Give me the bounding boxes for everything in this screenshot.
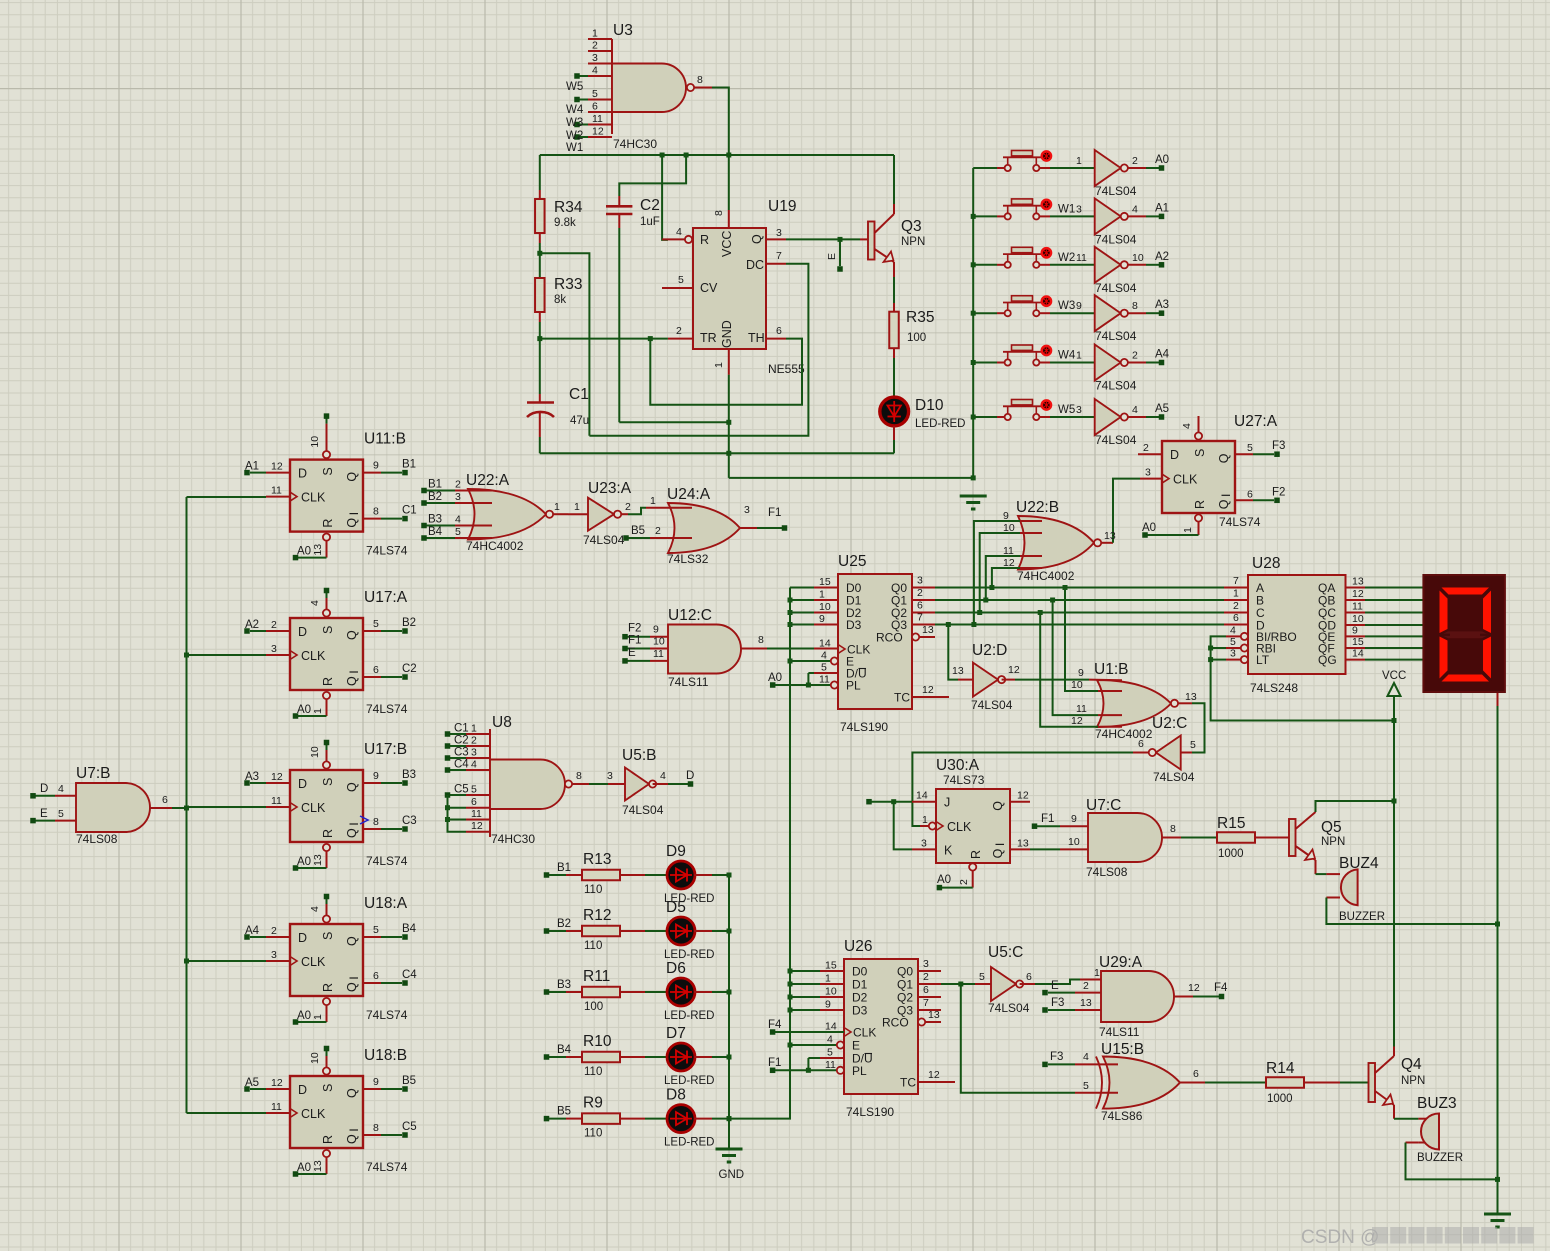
svg-text:U18:B: U18:B [364, 1047, 407, 1064]
svg-text:GND: GND [720, 320, 734, 348]
svg-text:Q: Q [345, 472, 359, 482]
svg-text:11: 11 [1076, 703, 1087, 715]
svg-text:R: R [700, 233, 709, 247]
wire U3 output to rail [712, 88, 729, 156]
node R34/R33 [537, 251, 589, 436]
svg-text:12: 12 [271, 771, 283, 783]
svg-text:S: S [321, 1084, 335, 1092]
svg-text:11: 11 [1076, 252, 1087, 264]
svg-text:U27:A: U27:A [1234, 413, 1278, 430]
svg-text:5: 5 [1083, 1080, 1089, 1092]
svg-text:R: R [321, 983, 335, 992]
svg-text:5: 5 [592, 88, 598, 100]
svg-text:F4: F4 [768, 1019, 782, 1031]
svg-text:5: 5 [821, 662, 827, 674]
svg-text:NPN: NPN [1401, 1075, 1425, 1087]
svg-text:1: 1 [1076, 350, 1082, 362]
svg-text:VCC: VCC [1382, 670, 1406, 682]
svg-text:U24:A: U24:A [667, 486, 711, 503]
svg-text:B4: B4 [557, 1044, 572, 1056]
ground LED bus [716, 1149, 745, 1181]
svg-text:1: 1 [713, 362, 725, 368]
svg-text:13: 13 [952, 665, 964, 677]
svg-text:W5: W5 [1058, 404, 1075, 416]
svg-text:74LS11: 74LS11 [1099, 1025, 1140, 1039]
svg-text:D8: D8 [666, 1087, 686, 1104]
wire GND net bottom [540, 452, 894, 454]
svg-text:5: 5 [373, 618, 379, 630]
svg-text:E: E [40, 808, 48, 820]
svg-text:D: D [686, 770, 694, 782]
svg-text:Q: Q [750, 234, 764, 244]
svg-text:C1: C1 [454, 723, 469, 735]
svg-text:6: 6 [1138, 738, 1144, 750]
svg-text:CLK: CLK [301, 491, 326, 505]
svg-text:4: 4 [1230, 624, 1236, 636]
svg-text:2: 2 [455, 479, 461, 491]
gate U22:B 74HC4002 NOR [1003, 479, 1140, 583]
svg-text:Q: Q [991, 848, 1005, 858]
svg-text:RCO: RCO [882, 1016, 909, 1030]
svg-text:U26: U26 [844, 938, 872, 955]
watermark [1301, 1227, 1534, 1248]
svg-text:D: D [298, 777, 307, 791]
svg-text:74LS74: 74LS74 [366, 702, 408, 716]
svg-text:13: 13 [1185, 691, 1197, 703]
svg-text:CLK: CLK [301, 955, 326, 969]
svg-text:8: 8 [373, 506, 379, 518]
svg-text:74LS04: 74LS04 [988, 1001, 1030, 1015]
svg-text:Q: Q [1217, 499, 1231, 509]
svg-text:14: 14 [916, 790, 928, 802]
wire bus Q1/B [935, 588, 1248, 603]
IC U19 NE555 timer [662, 155, 805, 376]
svg-text:QG: QG [1318, 653, 1337, 667]
resistor R34 9.8k [535, 155, 583, 253]
svg-text:5: 5 [678, 274, 684, 286]
svg-text:9: 9 [1078, 667, 1084, 679]
svg-text:C1: C1 [569, 386, 589, 403]
svg-text:W1: W1 [566, 142, 583, 154]
gate U2:C 74LS04 inverter [1133, 691, 1205, 784]
svg-text:4: 4 [592, 65, 598, 77]
svg-text:B2: B2 [557, 918, 571, 930]
svg-text:3: 3 [1230, 648, 1236, 660]
svg-text:NPN: NPN [1321, 836, 1345, 848]
svg-text:R: R [969, 850, 983, 859]
ground under buttons [960, 496, 987, 509]
svg-text:CLK: CLK [1173, 473, 1198, 487]
svg-text:R13: R13 [583, 851, 611, 868]
flip-flop U11:B [244, 413, 416, 560]
svg-text:13: 13 [312, 544, 324, 556]
svg-text:2: 2 [655, 525, 661, 537]
svg-text:W3: W3 [566, 117, 583, 129]
svg-text:9: 9 [653, 624, 659, 636]
svg-text:R: R [321, 1135, 335, 1144]
svg-text:4: 4 [827, 1034, 833, 1046]
wire CLK to U18:B [187, 1112, 267, 1114]
svg-text:4: 4 [676, 226, 682, 238]
svg-text:6: 6 [1026, 971, 1032, 983]
gate U15:B 74LS86 XOR [961, 984, 1266, 1123]
svg-text:13: 13 [312, 854, 324, 866]
svg-text:Q: Q [345, 676, 359, 686]
svg-text:C1: C1 [402, 505, 417, 517]
svg-text:A0: A0 [297, 546, 311, 558]
resistor R12 110 and LED D5 [544, 899, 729, 961]
svg-text:1: 1 [312, 708, 324, 714]
svg-text:5: 5 [58, 808, 64, 820]
wire U22:B pin11 [986, 556, 1042, 600]
svg-text:TR: TR [700, 331, 717, 345]
resistor R9 110 and LED D8 [544, 1087, 729, 1149]
svg-text:LED-RED: LED-RED [664, 1137, 714, 1149]
svg-text:S: S [1193, 449, 1207, 457]
svg-text:15: 15 [825, 960, 837, 972]
svg-text:6: 6 [917, 600, 923, 612]
gate U12:C 74LS11 AND [622, 607, 838, 689]
svg-text:A5: A5 [1155, 403, 1169, 415]
svg-text:U2:D: U2:D [972, 642, 1007, 659]
svg-text:Q4: Q4 [1401, 1056, 1422, 1073]
svg-text:74LS08: 74LS08 [1086, 865, 1128, 879]
svg-text:2: 2 [271, 925, 277, 937]
svg-text:100: 100 [584, 1001, 603, 1013]
svg-text:2: 2 [917, 587, 923, 599]
svg-text:4: 4 [1083, 1051, 1089, 1063]
svg-text:TC: TC [894, 691, 910, 705]
svg-text:DC: DC [746, 258, 764, 272]
svg-text:D9: D9 [666, 843, 686, 860]
svg-text:8: 8 [373, 1122, 379, 1134]
svg-text:12: 12 [1071, 715, 1083, 727]
resistor R11 100 and LED D6 [544, 960, 729, 1022]
svg-text:W2: W2 [1058, 252, 1075, 264]
svg-text:W5: W5 [566, 81, 583, 93]
resistor R13 110 and LED D9 [544, 843, 729, 905]
svg-text:B3: B3 [402, 769, 416, 781]
svg-text:74LS04: 74LS04 [1095, 329, 1137, 343]
svg-text:110: 110 [584, 884, 602, 896]
svg-text:7: 7 [776, 250, 782, 262]
flip-flop U17:B [244, 740, 416, 871]
wire U28 BI/RBI/LT [1208, 636, 1396, 723]
svg-text:10: 10 [1068, 836, 1080, 848]
VCC power symbol and rail [1382, 670, 1406, 1047]
svg-text:74LS04: 74LS04 [1153, 770, 1195, 784]
svg-text:5: 5 [979, 971, 985, 983]
svg-text:BUZ4: BUZ4 [1339, 855, 1379, 872]
svg-text:74LS73: 74LS73 [943, 773, 985, 787]
wire 7seg common [1495, 693, 1500, 1214]
capacitor C2 1uF [606, 155, 686, 422]
svg-text:C4: C4 [454, 759, 469, 771]
svg-text:1: 1 [825, 973, 831, 985]
svg-text:6: 6 [373, 970, 379, 982]
svg-text:Q: Q [345, 518, 359, 528]
svg-text:Q: Q [345, 1134, 359, 1144]
IC U28 74LS248 BCD to 7-seg decoder [1226, 555, 1424, 695]
svg-text:4: 4 [1132, 404, 1138, 416]
wire U25 D2 [790, 612, 814, 614]
svg-text:W3: W3 [1058, 300, 1075, 312]
wire 555 TH to TR [650, 339, 802, 405]
svg-text:74LS11: 74LS11 [668, 675, 709, 689]
button SW1 with inverter 74LS04 and net A0 [973, 150, 1169, 198]
svg-text:D: D [298, 931, 307, 945]
svg-text:1: 1 [471, 723, 477, 735]
svg-text:NE555: NE555 [768, 362, 805, 376]
svg-text:U5:C: U5:C [988, 944, 1023, 961]
svg-text:A2: A2 [245, 619, 259, 631]
button SW5 with inverter 74LS04 and net A4 [973, 345, 1169, 393]
svg-text:R34: R34 [554, 199, 583, 216]
svg-text:6: 6 [923, 984, 929, 996]
svg-text:CLK: CLK [301, 801, 326, 815]
svg-text:BUZZER: BUZZER [1339, 911, 1385, 923]
wire 555 Q to Q3 base [786, 237, 868, 242]
svg-text:8k: 8k [554, 294, 566, 306]
svg-text:3: 3 [1076, 404, 1082, 416]
gate U2:D 74LS04 inverter [948, 625, 1020, 713]
svg-text:1000: 1000 [1267, 1093, 1293, 1105]
svg-text:13: 13 [1352, 576, 1364, 588]
svg-text:A2: A2 [1155, 251, 1169, 263]
svg-text:2: 2 [1233, 600, 1239, 612]
svg-text:3: 3 [271, 949, 277, 961]
svg-text:PL: PL [852, 1064, 867, 1078]
wire bus Q0/A [935, 575, 1248, 590]
svg-text:F1: F1 [768, 1057, 781, 1069]
wire button feed column [971, 168, 976, 478]
svg-text:12: 12 [1008, 664, 1020, 676]
ground bottom right [1484, 1214, 1511, 1227]
wire VCC rail [540, 153, 894, 158]
svg-text:U29:A: U29:A [1099, 954, 1143, 971]
svg-text:BUZZER: BUZZER [1417, 1152, 1463, 1164]
svg-text:C2: C2 [640, 197, 660, 214]
svg-text:B1: B1 [557, 862, 571, 874]
svg-text:6: 6 [162, 794, 168, 806]
IC U26 74LS190 counter [820, 938, 955, 1119]
svg-text:F1: F1 [768, 507, 781, 519]
svg-text:B3: B3 [428, 514, 442, 526]
svg-text:U18:A: U18:A [364, 895, 408, 912]
svg-text:LT: LT [1256, 653, 1270, 667]
svg-text:TC: TC [900, 1076, 916, 1090]
svg-text:E: E [826, 253, 838, 260]
svg-text:D6: D6 [666, 960, 686, 977]
wire U22:B pin12 [992, 568, 1042, 588]
svg-text:J: J [944, 796, 950, 810]
svg-text:PL: PL [846, 679, 861, 693]
svg-text:47u: 47u [570, 415, 589, 427]
svg-text:F2: F2 [1272, 486, 1285, 498]
svg-text:R: R [321, 829, 335, 838]
svg-text:10: 10 [653, 636, 665, 648]
svg-text:1: 1 [592, 28, 598, 40]
svg-text:10: 10 [1132, 252, 1144, 264]
svg-text:10: 10 [819, 601, 831, 613]
wire U26 E [788, 1043, 837, 1048]
svg-text:1: 1 [922, 814, 928, 826]
svg-text:Q: Q [345, 828, 359, 838]
svg-text:10: 10 [1352, 613, 1364, 625]
svg-text:A0: A0 [768, 672, 782, 684]
svg-text:7: 7 [923, 997, 929, 1009]
svg-text:1uF: 1uF [640, 216, 660, 228]
svg-text:CLK: CLK [301, 1107, 326, 1121]
svg-text:11: 11 [1352, 601, 1363, 613]
svg-text:Q: Q [345, 1088, 359, 1098]
svg-text:S: S [321, 932, 335, 940]
svg-text:3: 3 [592, 52, 598, 64]
gate U22:A 74HC4002 NOR [421, 472, 568, 553]
capacitor C1 47u [527, 336, 589, 453]
wire U25 D0 [790, 587, 814, 589]
svg-text:RCO: RCO [876, 631, 903, 645]
wire C2 bottom to GND net [619, 420, 731, 425]
svg-text:CLK: CLK [301, 649, 326, 663]
svg-text:10: 10 [309, 436, 321, 448]
svg-text:2: 2 [271, 619, 277, 631]
svg-text:TH: TH [748, 331, 765, 345]
svg-text:W4: W4 [566, 104, 584, 116]
svg-text:3: 3 [923, 958, 929, 970]
svg-text:D2: D2 [852, 991, 868, 1005]
wire 555 TR [540, 336, 668, 341]
svg-text:11: 11 [271, 485, 282, 497]
svg-text:9: 9 [373, 460, 379, 472]
7-segment display showing 0 [1423, 575, 1505, 692]
button SW4 with inverter 74LS04 and net A3 [973, 295, 1169, 343]
wire U22:B pin9 [974, 521, 1042, 625]
svg-text:14: 14 [819, 638, 831, 650]
transistor Q5 NPN [1289, 801, 1394, 874]
svg-text:1: 1 [819, 589, 825, 601]
svg-text:12: 12 [922, 684, 934, 696]
svg-text:R12: R12 [583, 907, 611, 924]
svg-text:15: 15 [819, 576, 831, 588]
svg-text:U3: U3 [613, 22, 633, 39]
svg-text:R15: R15 [1217, 815, 1245, 832]
svg-text:10: 10 [309, 746, 321, 758]
wire CLK to U11:B [187, 496, 267, 498]
svg-text:E: E [1051, 980, 1059, 992]
resistor R35 100 [889, 277, 934, 396]
flip-flop U17:A [244, 588, 416, 719]
IC U27:A 74LS74 flip-flop [1138, 413, 1285, 538]
svg-text:74HC4002: 74HC4002 [466, 539, 524, 553]
svg-text:74HC30: 74HC30 [491, 832, 535, 846]
svg-text:A3: A3 [1155, 299, 1169, 311]
wire U26 PL F1 [768, 1057, 836, 1073]
svg-text:13: 13 [928, 1009, 940, 1021]
resistor R14 1000 [1266, 1060, 1369, 1105]
svg-text:74LS74: 74LS74 [1219, 515, 1261, 529]
wire U26 D pins [788, 969, 821, 1013]
svg-text:B2: B2 [428, 491, 442, 503]
svg-text:R: R [321, 677, 335, 686]
svg-text:1: 1 [1182, 527, 1194, 533]
svg-text:B2: B2 [402, 617, 416, 629]
svg-text:W1: W1 [1058, 203, 1075, 215]
svg-text:6: 6 [471, 796, 477, 808]
gate U1:B 74HC4002 NOR [1015, 588, 1178, 742]
buzzer BUZ4 [1326, 855, 1497, 924]
gate U24:A 74LS32 OR [623, 486, 787, 566]
svg-text:Q: Q [991, 801, 1005, 811]
svg-text:C4: C4 [402, 969, 417, 981]
svg-text:74HC4002: 74HC4002 [1017, 569, 1075, 583]
IC U3 74HC30 8-input NAND gate [566, 22, 712, 154]
flip-flop U18:B [244, 1046, 416, 1177]
svg-text:Q: Q [345, 982, 359, 992]
svg-text:8: 8 [576, 770, 582, 782]
flip-flop U18:A [244, 894, 417, 1025]
svg-text:CLK: CLK [947, 820, 972, 834]
svg-text:8: 8 [1132, 300, 1138, 312]
svg-text:B5: B5 [402, 1075, 416, 1087]
svg-text:CSDN @: CSDN @ [1301, 1227, 1379, 1248]
svg-text:U22:B: U22:B [1016, 499, 1059, 516]
svg-text:13: 13 [1104, 530, 1116, 542]
svg-text:9: 9 [1352, 624, 1358, 636]
svg-text:R9: R9 [583, 1095, 603, 1112]
svg-text:74LS74: 74LS74 [366, 1160, 408, 1174]
svg-text:B4: B4 [428, 526, 443, 538]
svg-text:74LS86: 74LS86 [1101, 1109, 1143, 1123]
transistor Q4 NPN [1369, 1047, 1426, 1119]
LED D10 LED-RED [880, 397, 966, 453]
svg-text:5: 5 [471, 784, 477, 796]
svg-text:S: S [321, 778, 335, 786]
svg-text:74LS04: 74LS04 [583, 533, 625, 547]
button SW2 with inverter 74LS04 and net A1 [973, 198, 1169, 246]
svg-text:2: 2 [471, 735, 477, 747]
svg-text:74LS04: 74LS04 [1095, 433, 1137, 447]
svg-text:Q: Q [1217, 453, 1231, 463]
svg-text:11: 11 [653, 648, 664, 660]
svg-text:B5: B5 [557, 1106, 571, 1118]
svg-text:Q: Q [345, 630, 359, 640]
svg-text:8: 8 [697, 74, 703, 86]
cursor mark [360, 816, 368, 824]
svg-text:B5: B5 [631, 525, 645, 537]
svg-text:3: 3 [744, 504, 750, 516]
svg-text:U8: U8 [492, 714, 512, 731]
svg-text:VCC: VCC [720, 231, 734, 257]
svg-text:2: 2 [958, 879, 970, 885]
wire 555 DC loop [589, 264, 808, 436]
svg-text:4: 4 [1132, 203, 1138, 215]
svg-text:11: 11 [271, 1101, 282, 1113]
svg-text:U28: U28 [1252, 555, 1280, 572]
svg-text:3: 3 [455, 491, 461, 503]
wire U26 CLK F4 [768, 1019, 844, 1035]
svg-text:U15:B: U15:B [1101, 1041, 1144, 1058]
svg-text:14: 14 [825, 1021, 837, 1033]
wire U25 PL A0 [768, 672, 830, 688]
svg-text:4: 4 [471, 759, 477, 771]
svg-text:74LS248: 74LS248 [1250, 681, 1298, 695]
wire bus Q2/C [935, 600, 1248, 615]
wire U25 D1 [790, 599, 814, 601]
gate U29:A 74LS11 AND [1042, 954, 1228, 1039]
gate U7:C 74LS08 AND [1030, 797, 1181, 879]
svg-text:U17:A: U17:A [364, 589, 408, 606]
